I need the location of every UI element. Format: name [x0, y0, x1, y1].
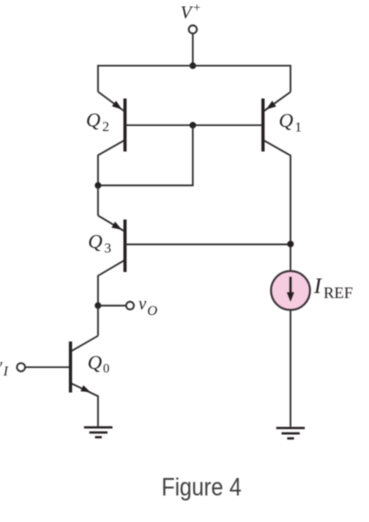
- junction dot collector node: [95, 182, 102, 189]
- wire top-right corner down to Q1 emitter: [290, 65, 292, 92]
- wire top rail: [98, 65, 291, 67]
- wire Q1 collector down: [290, 155, 292, 271]
- svg-text:Q: Q: [279, 110, 294, 132]
- wire V+ to top rail: [192, 34, 194, 67]
- svg-text:1: 1: [295, 121, 302, 136]
- label Q2: [86, 110, 109, 135]
- svg-text:I: I: [313, 273, 323, 298]
- svg-text:Figure 4: Figure 4: [162, 473, 242, 501]
- wire IREF bottom down: [290, 310, 292, 427]
- wire Q3 base to IREF node: [126, 243, 291, 245]
- svg-text:3: 3: [104, 241, 111, 256]
- wire top-left corner down to Q2 emitter: [97, 65, 99, 92]
- transistor Q3 (pnp): [98, 216, 125, 276]
- wire Q2 collector down: [97, 155, 99, 186]
- svg-text:+: +: [193, 0, 200, 14]
- wire vO stub: [98, 305, 126, 307]
- wire Q3 collector down to vO: [97, 275, 99, 306]
- label vI: [0, 355, 9, 380]
- wire base dot down: [192, 125, 194, 185]
- node vO terminal: [126, 302, 134, 310]
- wire node down to Q3 emitter: [97, 185, 99, 215]
- label Q1: [279, 110, 302, 136]
- wire base rail Q2-Q1: [126, 124, 262, 126]
- svg-text:v: v: [139, 293, 147, 313]
- svg-text:Q: Q: [86, 110, 101, 132]
- svg-text:Q: Q: [88, 231, 103, 253]
- ground (right, under IREF): [276, 428, 305, 438]
- svg-text:O: O: [147, 304, 157, 319]
- junction dot vO: [95, 302, 102, 309]
- current source IREF: [271, 271, 310, 310]
- svg-text:2: 2: [102, 120, 109, 135]
- transistor Q1 (pnp, mirrored): [263, 92, 291, 156]
- ground (left, under Q0): [84, 427, 113, 437]
- node vI terminal: [17, 363, 25, 371]
- svg-text:V: V: [181, 3, 194, 23]
- node V+ terminal: [189, 25, 197, 33]
- wire Q0 emitter down: [97, 396, 99, 427]
- label IREF: [313, 273, 353, 302]
- svg-text:Q: Q: [88, 352, 103, 374]
- label Q0: [88, 352, 110, 375]
- wire vO down to Q0 collector: [97, 306, 99, 336]
- label vO: [139, 293, 158, 318]
- caption Figure 4: [162, 473, 242, 501]
- transistor Q0 (npn): [71, 336, 99, 396]
- wire vI to Q0 base: [25, 366, 69, 368]
- junction dot IREF node: [287, 241, 294, 248]
- label V+: [181, 0, 201, 23]
- svg-text:v: v: [0, 355, 3, 375]
- svg-text:0: 0: [103, 361, 110, 376]
- svg-text:REF: REF: [324, 285, 353, 302]
- svg-text:I: I: [2, 365, 9, 380]
- junction dot on top rail: [190, 62, 197, 69]
- wire horizontal to Q2 collector node: [98, 184, 194, 186]
- junction dot base rail: [190, 122, 197, 129]
- label Q3: [88, 231, 111, 256]
- transistor Q2 (pnp): [98, 92, 125, 156]
